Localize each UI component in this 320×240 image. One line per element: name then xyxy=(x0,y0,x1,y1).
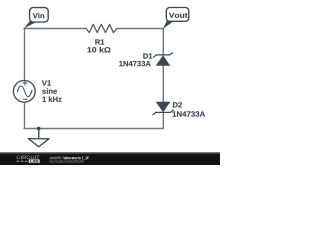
diode D1 triangle xyxy=(156,55,171,66)
V1 minus sign xyxy=(23,98,27,100)
diode D1 zener bar xyxy=(154,53,173,57)
flag Vout tail xyxy=(163,19,174,28)
ground stem xyxy=(38,129,40,139)
diode D2 zener bar xyxy=(153,110,173,115)
label V1 xyxy=(42,80,51,85)
wire top right xyxy=(117,28,163,30)
flag Vin text xyxy=(33,13,44,18)
footer line2 url xyxy=(50,160,85,164)
wire top left xyxy=(24,28,86,30)
label D1 value 1N4733A xyxy=(119,61,150,66)
voltage source V1 circle xyxy=(13,80,35,102)
flag Vout bubble xyxy=(166,8,189,22)
resistor R1 xyxy=(86,24,117,32)
label R1 xyxy=(95,39,104,44)
flag Vin tail xyxy=(24,20,37,29)
label R1 value 10 kOhm xyxy=(87,47,110,53)
label V1 value 1 kHz xyxy=(42,96,61,102)
wire below source xyxy=(24,102,26,128)
footer logo LAB badge text xyxy=(30,160,38,162)
V1 sine wave xyxy=(17,86,32,97)
label D2 xyxy=(173,102,182,107)
diode D2 triangle xyxy=(156,102,171,113)
label V1 type sine xyxy=(42,88,57,94)
wire bottom xyxy=(24,128,163,130)
wire below D2 xyxy=(162,112,164,128)
footer logo CIRCUIT xyxy=(17,156,40,160)
ground xyxy=(28,139,49,147)
label D2 value 1N4733A xyxy=(173,111,206,116)
wire left vertical xyxy=(24,29,26,81)
footer bar xyxy=(0,152,220,165)
label D1 xyxy=(143,53,152,58)
footer logo LAB badge xyxy=(29,159,40,163)
wire right upper xyxy=(162,29,164,55)
wire between D1 and D2 xyxy=(162,66,164,102)
junction dot xyxy=(37,127,41,131)
flag Vout text xyxy=(169,13,188,18)
V1 plus sign xyxy=(23,81,27,85)
footer line1 user xyxy=(50,156,63,159)
flag Vin bubble xyxy=(30,8,49,22)
footer logo dashes xyxy=(16,160,27,162)
footer line1 title xyxy=(64,156,89,159)
